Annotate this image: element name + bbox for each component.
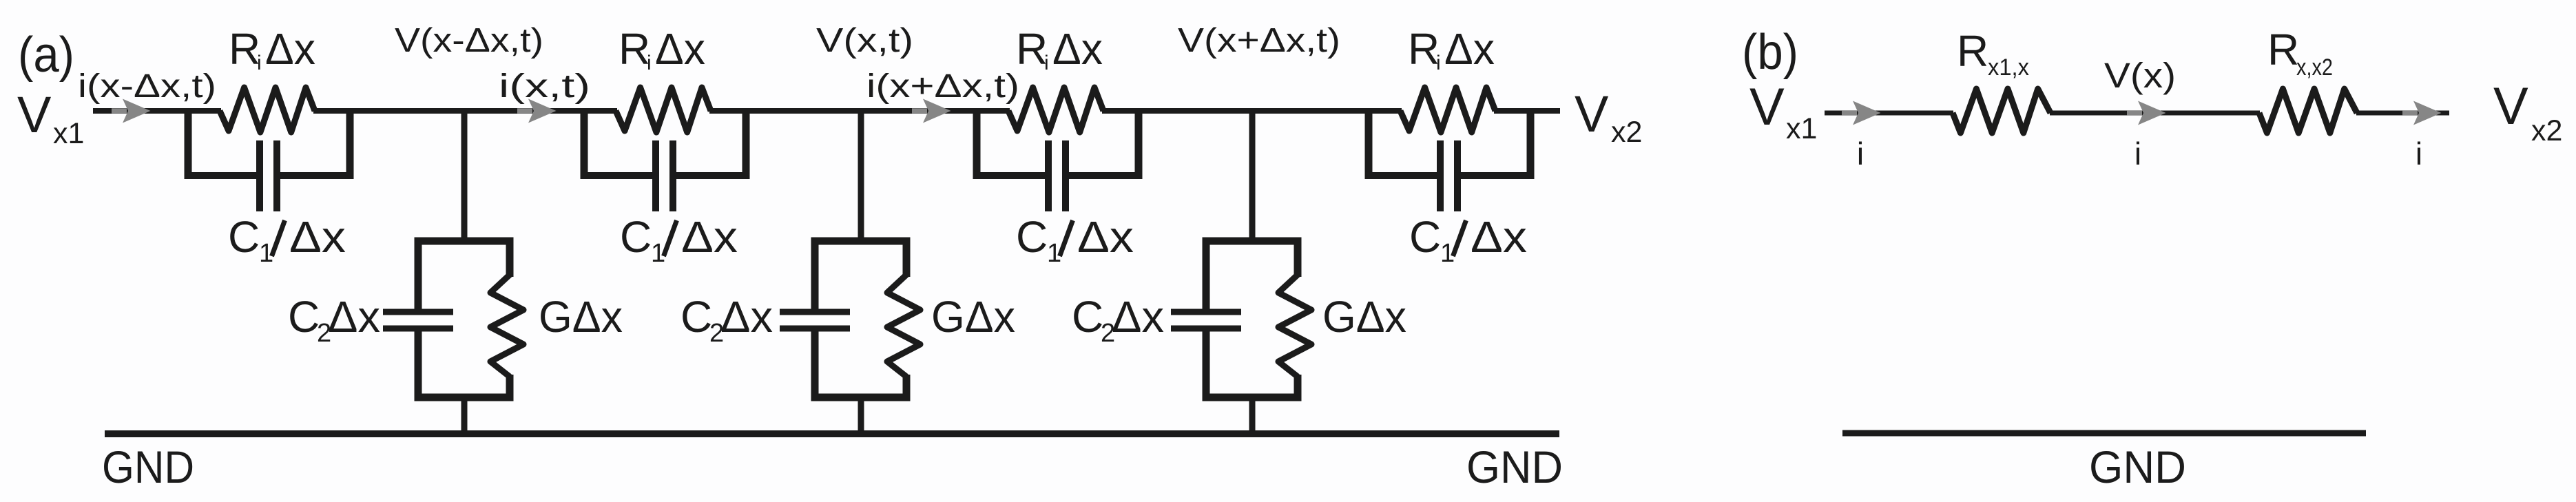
svg-text:V(x-Δx,t): V(x-Δx,t) xyxy=(395,22,543,59)
svg-text:x2: x2 xyxy=(2531,114,2562,147)
svg-text:(b): (b) xyxy=(1742,25,1798,80)
svg-text:V: V xyxy=(1575,85,1609,143)
svg-text:i: i xyxy=(257,52,262,74)
svg-text:R: R xyxy=(1408,24,1440,74)
svg-text:i: i xyxy=(647,52,652,74)
svg-text:Δx: Δx xyxy=(1052,24,1103,74)
svg-text:x,x2: x,x2 xyxy=(2296,54,2333,81)
svg-text:Δx: Δx xyxy=(720,292,773,342)
svg-text:C: C xyxy=(1072,292,1103,342)
svg-text:i: i xyxy=(1436,52,1441,74)
svg-text:C: C xyxy=(288,292,320,342)
svg-text:GΔx: GΔx xyxy=(931,292,1015,342)
svg-text:Δx: Δx xyxy=(1444,24,1495,74)
svg-text:i: i xyxy=(2416,136,2422,171)
svg-text:C: C xyxy=(228,212,260,262)
svg-text:Δx: Δx xyxy=(265,24,315,74)
svg-text:x1: x1 xyxy=(53,117,84,150)
svg-text:C: C xyxy=(620,212,652,262)
svg-text:V(x,t): V(x,t) xyxy=(816,22,913,59)
svg-text:R: R xyxy=(229,24,260,74)
svg-text:GΔx: GΔx xyxy=(539,292,623,342)
svg-text:i(x+Δx,t): i(x+Δx,t) xyxy=(866,68,1019,105)
svg-text:i: i xyxy=(1857,136,1864,171)
svg-text:GND: GND xyxy=(1466,441,1563,492)
svg-text:Δx: Δx xyxy=(681,212,738,262)
svg-text:Δx: Δx xyxy=(1471,212,1527,262)
svg-text:R: R xyxy=(1957,26,1988,76)
svg-text:Δx: Δx xyxy=(1112,292,1164,342)
svg-text:x1: x1 xyxy=(1786,112,1817,145)
svg-text:R: R xyxy=(619,24,650,74)
svg-text:R: R xyxy=(1016,24,1048,74)
svg-text:GND: GND xyxy=(102,441,194,492)
svg-text:V: V xyxy=(17,86,52,143)
svg-text:V: V xyxy=(2493,77,2528,136)
svg-text:GΔx: GΔx xyxy=(1322,292,1406,342)
svg-text:C: C xyxy=(681,292,712,342)
svg-text:V: V xyxy=(1749,78,1785,136)
svg-text:i: i xyxy=(2134,136,2141,171)
svg-text:Δx: Δx xyxy=(655,24,705,74)
svg-text:V(x): V(x) xyxy=(2104,56,2176,95)
svg-text:R: R xyxy=(2267,25,2299,74)
svg-text:V(x+Δx,t): V(x+Δx,t) xyxy=(1178,22,1340,59)
svg-text:C: C xyxy=(1016,212,1048,262)
svg-text:x2: x2 xyxy=(1611,116,1642,149)
svg-text:i(x,t): i(x,t) xyxy=(499,68,590,105)
svg-text:GND: GND xyxy=(2089,441,2186,492)
svg-text:Δx: Δx xyxy=(1077,212,1134,262)
svg-text:x1,x: x1,x xyxy=(1988,54,2029,81)
svg-text:Δx: Δx xyxy=(289,212,346,262)
svg-text:(a): (a) xyxy=(18,28,74,83)
svg-text:Δx: Δx xyxy=(328,292,380,342)
svg-text:C: C xyxy=(1409,212,1441,262)
svg-text:i(x-Δx,t): i(x-Δx,t) xyxy=(78,68,216,105)
svg-text:i: i xyxy=(1044,52,1049,74)
